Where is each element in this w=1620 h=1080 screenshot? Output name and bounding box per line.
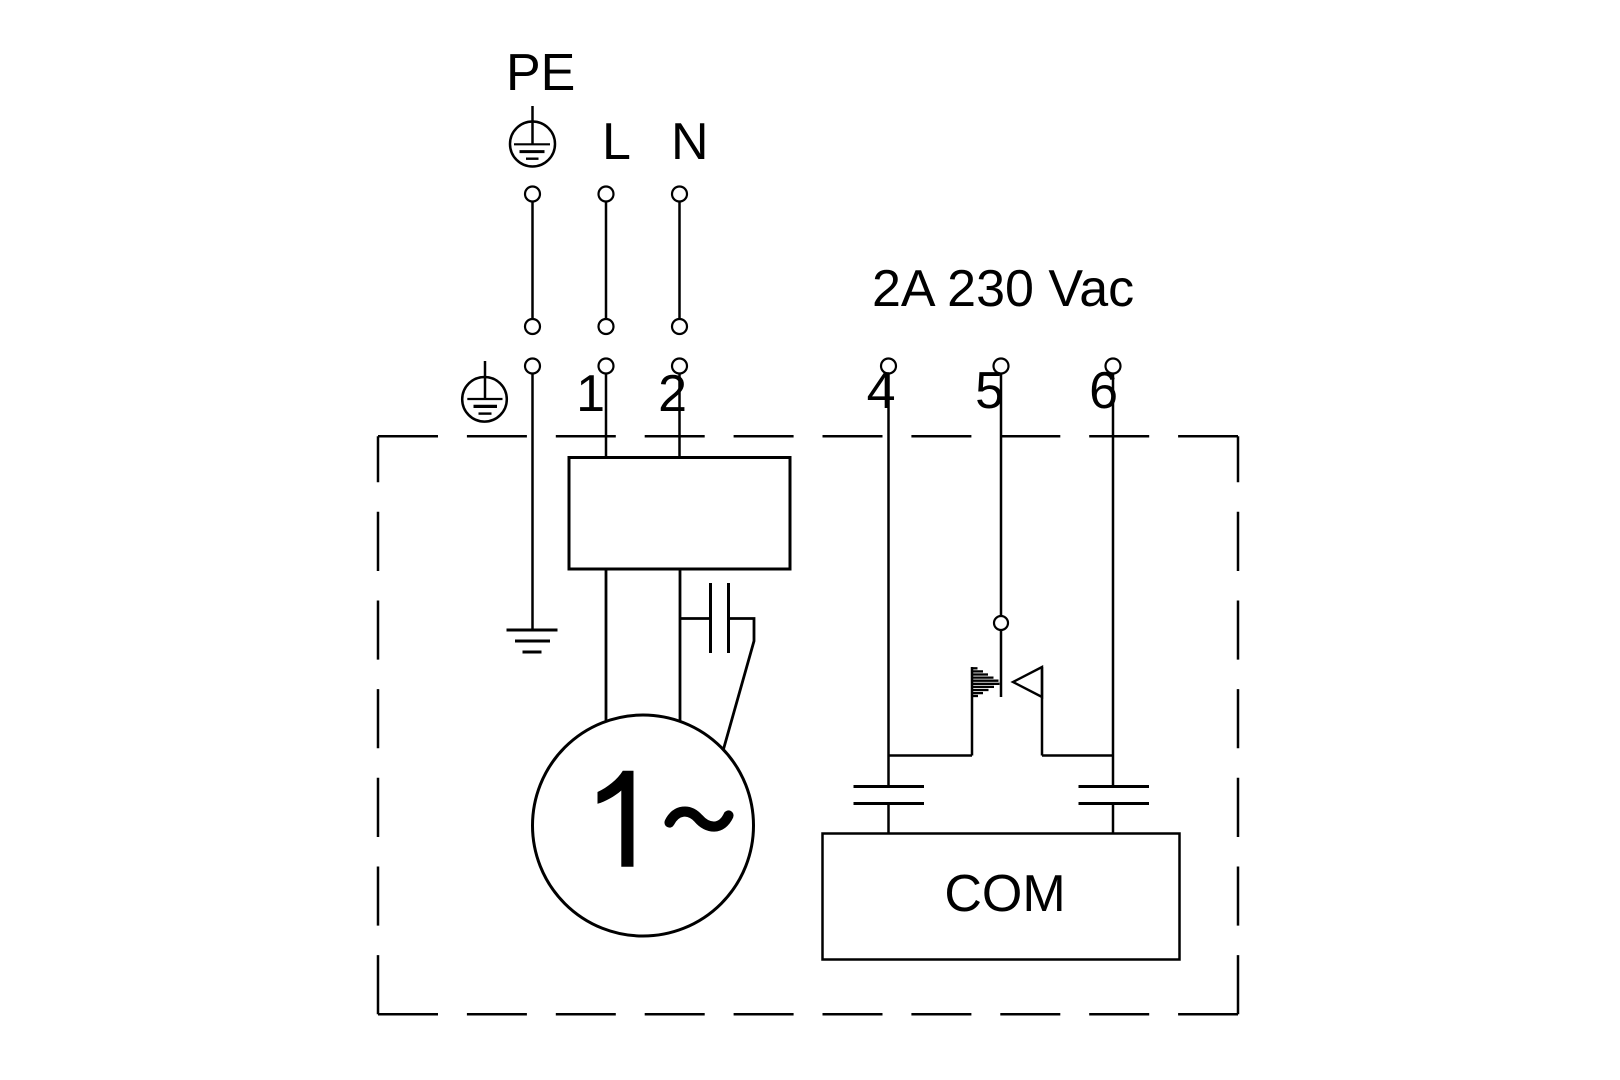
wire capacitor to motor [721, 619, 754, 759]
wire terminal 5 gate [1000, 374, 1003, 617]
svg-text:N: N [671, 113, 709, 171]
wire box to motor right [679, 569, 682, 728]
wire terminal 6 down [1112, 374, 1115, 787]
terminal PE socket circle [525, 359, 540, 374]
wire triac right lead [1042, 754, 1113, 757]
wire triac left lead [889, 754, 973, 757]
svg-text:2A 230 Vac: 2A 230 Vac [872, 260, 1134, 318]
capacitor C6 right plates [1079, 787, 1150, 804]
wire PE to ground [531, 374, 534, 631]
capacitor C4 left plates [854, 787, 925, 804]
svg-text:COM: COM [944, 865, 1065, 923]
terminal 6 circle [1106, 359, 1121, 374]
wire terminal 1 to box [605, 374, 608, 459]
terminal L socket circle / terminal 1 [599, 359, 614, 374]
svg-text:L: L [602, 113, 631, 171]
wire L plug [605, 202, 608, 320]
terminal N top circle [672, 187, 687, 202]
terminal L top circle [599, 187, 614, 202]
motor label tilde [670, 812, 729, 827]
wire gate to triac [1000, 630, 1003, 697]
svg-text:5: 5 [975, 362, 1004, 420]
protective earth symbol top [510, 106, 555, 167]
motor terminal box [569, 458, 790, 570]
terminal PE lower circle [525, 319, 540, 334]
dashed enclosure border left edge [377, 436, 380, 1014]
dashed enclosure border bottom edge [378, 1013, 1238, 1016]
motor M1 circle [533, 715, 754, 936]
gate node circle [994, 616, 1008, 630]
terminal N lower circle [672, 319, 687, 334]
wire N plug [678, 202, 681, 320]
triac right bar and lead [1041, 667, 1044, 756]
triac left triangle hatched [973, 668, 1000, 696]
ground symbol PE [507, 630, 558, 652]
earth symbol chassis [462, 361, 507, 422]
dashed enclosure border right edge [1237, 436, 1240, 1014]
wire terminal 2 to box [678, 374, 681, 459]
terminal PE top circle [525, 187, 540, 202]
wire box to motor left [605, 569, 608, 730]
svg-text:2: 2 [658, 365, 687, 423]
terminal 5 circle [994, 359, 1009, 374]
dashed enclosure border top edge [378, 435, 1238, 438]
terminal N socket circle / terminal 2 [672, 359, 687, 374]
wire terminal 4 down [887, 374, 890, 787]
wire PE plug [531, 202, 534, 320]
terminal L lower circle [599, 319, 614, 334]
wire junction to run capacitor [680, 617, 710, 620]
motor label 1 [598, 771, 634, 867]
wire 6 below capacitor to COM [1112, 804, 1115, 834]
wire 4 below capacitor to COM [887, 804, 890, 834]
run capacitor C [711, 583, 729, 653]
triac left cathode bar and lead [971, 667, 974, 756]
svg-text:4: 4 [867, 362, 896, 420]
COM box [823, 834, 1180, 960]
svg-text:PE: PE [506, 44, 575, 102]
terminal 4 circle [881, 359, 896, 374]
triac right triangle open [1013, 667, 1042, 697]
svg-text:1: 1 [576, 365, 605, 423]
